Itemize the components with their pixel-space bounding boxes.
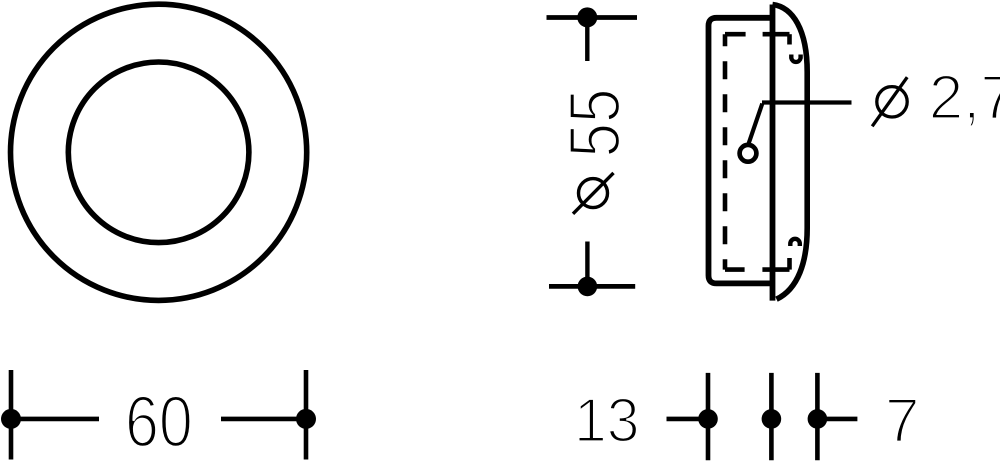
dimension d55 top tick line (547, 15, 638, 20)
leader horizontal segment (762, 100, 852, 104)
hidden recess right edge bottom stub (dashed) (787, 258, 792, 270)
dimension 60 left stub (11, 417, 99, 422)
hidden recess left edge (dashed) (723, 34, 728, 269)
side view dome profile (773, 5, 808, 300)
svg-text:55: 55 (555, 89, 636, 158)
dimension 7 extension line (815, 373, 820, 460)
shared extension line (769, 373, 774, 460)
dimension 7 stub (817, 417, 857, 422)
dimension 13 stub (667, 417, 709, 422)
hidden recess bottom edge (dashed) (725, 267, 790, 272)
hidden recess top edge (dashed) (725, 32, 790, 37)
dimension d55 top dimension line segment (585, 17, 589, 61)
dimension d2.7 label diameter symbol (872, 77, 907, 126)
svg-text:13: 13 (574, 385, 640, 455)
cover rolled rim top curl (791, 55, 800, 62)
fixing hole (740, 145, 757, 162)
dimension 7 dot (808, 409, 828, 429)
dimension d55 bottom dimension line segment (585, 242, 589, 287)
svg-text:2,7: 2,7 (929, 64, 1000, 133)
dimension d55 label diameter symbol (573, 173, 614, 214)
side view plate outline (709, 18, 773, 284)
dimension 60 left dot (1, 409, 21, 429)
dimension 13 left dot (698, 409, 718, 429)
cover rolled rim bottom curl (790, 239, 800, 246)
svg-text:60: 60 (125, 382, 193, 463)
dimension 60 right stub (221, 417, 306, 422)
side view flange face line (770, 5, 776, 301)
dimension 13 left extension line (706, 373, 711, 460)
front view inner circle (68, 62, 249, 243)
dimension 60 right extension line (304, 370, 309, 460)
dimension d55 bottom dot (578, 277, 598, 297)
dimension 60 right dot (296, 409, 316, 429)
svg-text:7: 7 (885, 386, 919, 455)
leader slanted segment (748, 104, 762, 145)
front view outer circle (11, 4, 307, 300)
dimension d55 top dot (577, 7, 597, 27)
dimension 60 left extension line (9, 370, 14, 460)
dimension d55 bottom tick line (549, 284, 635, 289)
shared dot (762, 409, 782, 429)
hidden recess right edge top stub (dashed) (787, 34, 792, 44)
